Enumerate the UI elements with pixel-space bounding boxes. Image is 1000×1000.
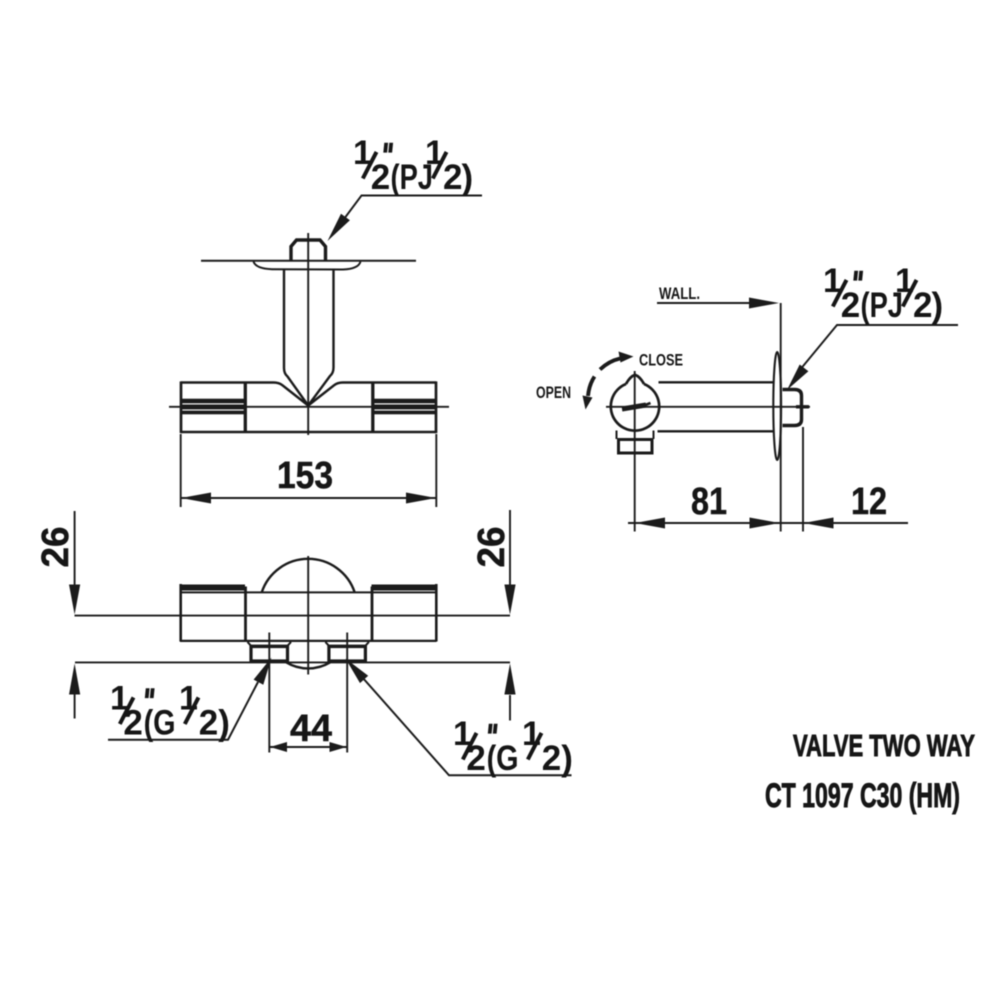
plan body top line	[181, 591, 436, 593]
leader arrow of left G label	[254, 658, 272, 685]
side view vertical centerline / 81 extension	[634, 371, 636, 532]
plan joint line right	[371, 587, 374, 642]
wall line	[780, 303, 782, 532]
bonnet upper right edge	[653, 431, 655, 440]
svg-text:2: 2	[371, 158, 390, 197]
bonnet hex nut	[619, 440, 653, 454]
plan view vertical centerline	[307, 556, 309, 675]
svg-text:1: 1	[522, 715, 541, 753]
dimension 44 line	[270, 746, 347, 748]
leader line of top PJ label	[341, 196, 482, 224]
svg-text:(G: (G	[144, 704, 176, 743]
right outlet step	[325, 642, 369, 646]
dimension 153 arrow right	[406, 493, 436, 504]
svg-text:): )	[218, 704, 230, 743]
plan body bottom line	[180, 640, 437, 642]
thread hatch left connector	[181, 399, 244, 415]
dimension 26 right arrow upper	[504, 585, 515, 615]
dimension 26 left arrow upper	[69, 585, 80, 615]
escutcheon flange body	[254, 262, 361, 270]
svg-text:2: 2	[841, 286, 860, 325]
left outlet nut	[251, 647, 288, 662]
hex nut (top inlet)	[291, 240, 326, 261]
plan body top thick band left connector	[180, 585, 245, 591]
svg-text:): )	[462, 158, 474, 197]
fraction label half-inch PJ at front view	[353, 134, 473, 197]
outlet face plane line	[75, 661, 510, 663]
svg-text:VALVE TWO WAY: VALVE TWO WAY	[793, 728, 975, 763]
plan joint line left	[244, 587, 247, 642]
dimension 26 right arrow lower	[504, 664, 515, 695]
bonnet upper left edge	[616, 431, 618, 440]
body right end	[435, 381, 438, 433]
dimension 44 extension line right	[346, 633, 348, 753]
svg-text:44: 44	[290, 708, 332, 750]
svg-text:CLOSE: CLOSE	[639, 352, 683, 370]
svg-text:2: 2	[443, 158, 462, 197]
svg-text:): )	[932, 286, 944, 325]
dimension 26 left arrow lower	[69, 664, 80, 695]
joint line left connector	[244, 383, 247, 433]
svg-text:2: 2	[542, 739, 561, 778]
svg-text:1: 1	[179, 680, 198, 718]
dimension 12 arrow	[804, 518, 834, 529]
body top edge right with taper into center	[308, 383, 436, 406]
dimension 44 extension line left	[268, 633, 270, 753]
joint line right connector	[371, 383, 374, 433]
plan body top thick band right connector	[372, 585, 438, 591]
fraction label half-inch G at right	[453, 715, 573, 778]
svg-text:12: 12	[851, 481, 887, 523]
escutcheon flange top line	[201, 260, 416, 262]
pipe top edge	[659, 381, 774, 383]
wall nut (PJ connector)	[783, 390, 802, 426]
fraction label half-inch PJ at side view	[823, 262, 943, 325]
centerline thick dash at wall nut	[796, 405, 809, 408]
svg-text:WALL.: WALL.	[659, 285, 700, 303]
valve stem left side with taper	[284, 270, 308, 406]
handle slot	[622, 405, 646, 409]
svg-text:OPEN: OPEN	[536, 384, 571, 402]
dimension 81 arrow left	[635, 518, 665, 529]
handle dome lower arc	[286, 662, 330, 668]
leader arrow of side PJ label	[787, 365, 808, 391]
plan view horizontal centerline	[75, 615, 511, 617]
dimension 26 right line lower	[509, 695, 511, 721]
fraction label half-inch G at left	[110, 680, 230, 743]
dimension 153 arrow left	[181, 493, 211, 504]
side view horizontal centerline	[606, 406, 810, 408]
dimension 26 right line upper	[509, 510, 511, 585]
dimension 44 arrow left	[270, 742, 287, 752]
svg-text:CT 1097 C30 (HM): CT 1097 C30 (HM)	[765, 777, 960, 815]
front view vertical centerline	[307, 233, 309, 435]
dimension 26 left line upper	[74, 511, 76, 585]
svg-text:26: 26	[35, 527, 77, 568]
body bottom edge	[181, 431, 436, 434]
pipe bottom edge	[658, 430, 774, 432]
dimension 44 arrow right	[330, 742, 347, 752]
leader line of side PJ label	[799, 325, 958, 371]
handle circle	[611, 384, 659, 431]
OPEN arrowhead	[583, 396, 593, 410]
dimension 81 arrow right	[750, 518, 780, 529]
leader line of left G label	[108, 682, 258, 740]
front view horizontal pipe centerline	[169, 406, 449, 408]
svg-text:153: 153	[277, 455, 333, 497]
handle lever tip bump	[626, 375, 644, 384]
thread hatch right connector	[374, 399, 437, 415]
leader line of right G label	[362, 677, 572, 775]
leader arrow of top PJ label	[328, 214, 350, 241]
svg-text:2: 2	[913, 286, 932, 325]
WALL arrowhead	[749, 298, 779, 309]
right outlet nut	[329, 647, 366, 662]
plan body right end	[435, 584, 438, 642]
wall flange ellipse	[773, 352, 781, 460]
body top edge left with taper into center	[181, 383, 308, 406]
leader arrow of right G label	[346, 659, 369, 684]
left outlet step	[248, 642, 292, 646]
extension line at wall nut face	[802, 427, 804, 532]
dimension 26 left line lower	[74, 694, 76, 719]
svg-text:(G: (G	[487, 739, 519, 778]
svg-text:2: 2	[199, 704, 218, 743]
OPEN rotation arrow	[588, 377, 595, 397]
svg-text:26: 26	[471, 527, 513, 568]
dimension 81 and 12 line	[628, 522, 908, 524]
svg-text:81: 81	[691, 481, 727, 523]
CLOSE arrowhead	[619, 352, 634, 363]
dimension 153 line	[181, 497, 436, 499]
valve stem right side with taper	[308, 270, 333, 406]
body left end	[180, 381, 183, 433]
dimension 153 extension line left	[180, 434, 182, 507]
dimension 153 extension line right	[435, 434, 437, 507]
CLOSE rotation arrow	[600, 359, 620, 370]
WALL arrow line	[657, 302, 752, 304]
svg-text:): )	[561, 739, 573, 778]
plan body left end	[179, 584, 182, 642]
handle dome upper arc	[262, 559, 355, 593]
